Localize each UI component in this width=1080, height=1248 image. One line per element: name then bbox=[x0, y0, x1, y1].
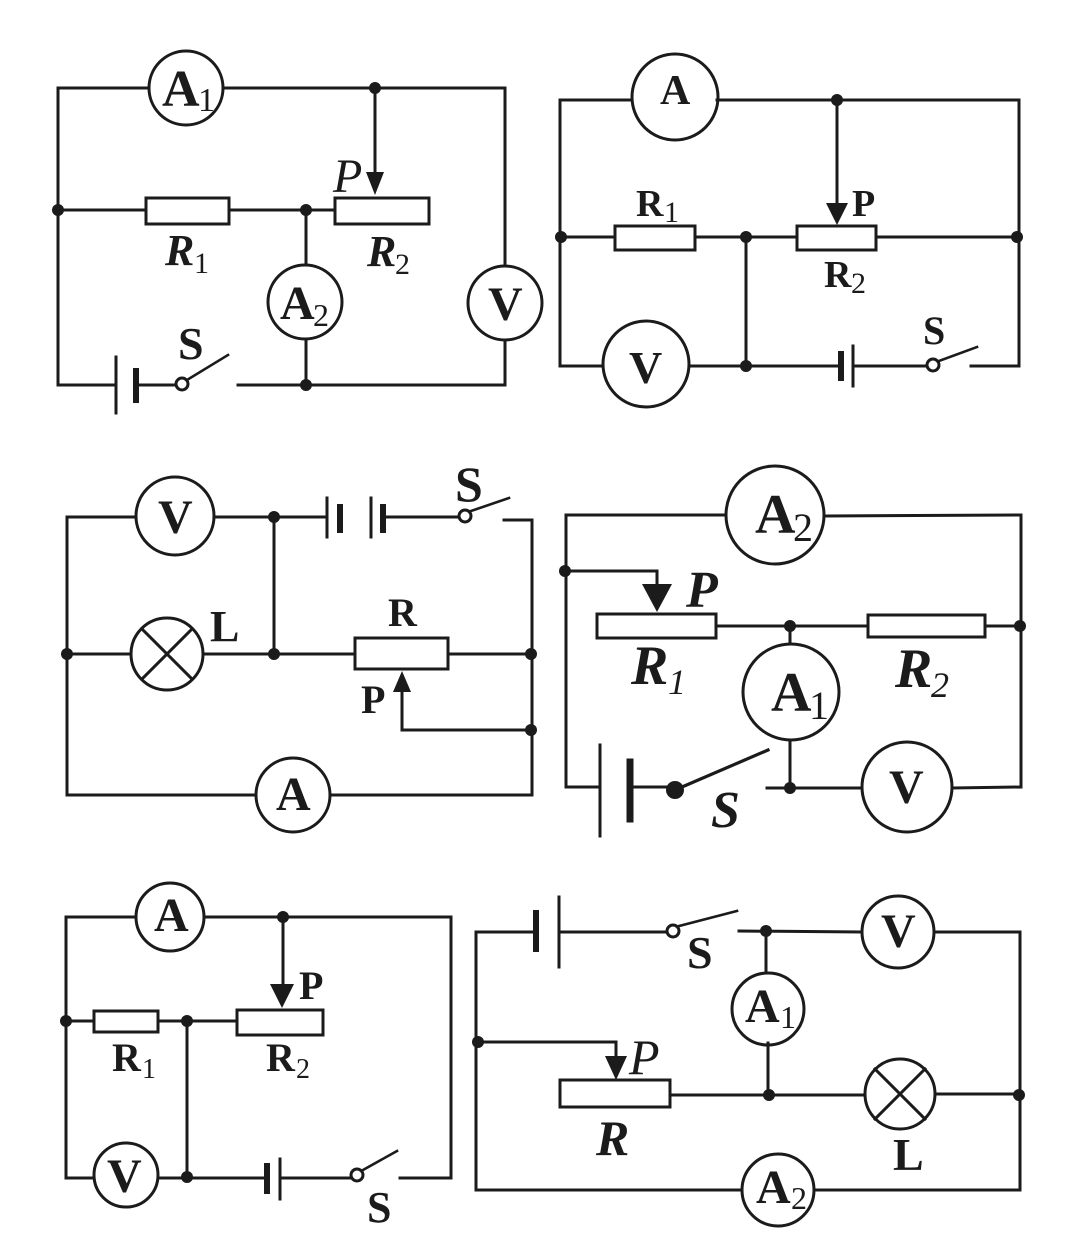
wire: c3 middle left bbox=[67, 653, 132, 656]
wire: c2 right edge bbox=[1018, 100, 1021, 366]
battery short plate (c6) bbox=[533, 913, 539, 949]
svg-text:A: A bbox=[660, 68, 691, 114]
switch S pivot (c5) bbox=[351, 1169, 363, 1181]
node: c3 left middle junction bbox=[61, 648, 73, 660]
svg-text:R: R bbox=[636, 183, 664, 225]
wire: c2 left edge bbox=[559, 100, 562, 366]
switch S blade (c6) bbox=[679, 911, 737, 926]
wire: c5 middle center bbox=[158, 1020, 237, 1023]
svg-text:A: A bbox=[162, 61, 200, 118]
battery cell1 short plate (c3) bbox=[337, 507, 343, 530]
switch pivot dot (c4) bbox=[666, 781, 684, 799]
node: c5 middle junction bbox=[181, 1015, 193, 1027]
wire: c1 bottom right bbox=[238, 384, 505, 387]
wire: c4 bottom center bbox=[767, 787, 862, 790]
rheostat R2 (c5) bbox=[237, 1010, 323, 1035]
wire: c6 wiper horizontal bbox=[476, 1042, 616, 1058]
wire: c6 bottom left bbox=[476, 1189, 741, 1192]
wire: c6 middle bbox=[670, 1094, 865, 1097]
svg-text:2: 2 bbox=[395, 248, 410, 281]
wire: c3 left edge bbox=[66, 517, 69, 795]
resistor R2 (c4) bbox=[868, 615, 985, 637]
node: c2 left middle junction bbox=[555, 231, 567, 243]
switch S pivot (c1) bbox=[176, 378, 188, 390]
wire: c4 middle right bbox=[985, 625, 1021, 628]
svg-text:P: P bbox=[299, 963, 323, 1008]
battery cell2 short plate (c3) bbox=[380, 507, 386, 530]
battery cell1 long plate (c3) bbox=[326, 498, 329, 537]
wire: c1 top right segment bbox=[223, 87, 505, 90]
wire: c4 wiper horizontal bbox=[566, 571, 657, 586]
wire: battery to switch (c2) bbox=[853, 365, 927, 368]
wire: c3 middle center bbox=[203, 653, 355, 656]
ammeter A1 (c6) bbox=[732, 973, 804, 1045]
switch S pivot (c3) bbox=[459, 510, 471, 522]
voltmeter V (c4) bbox=[862, 742, 952, 832]
rheostat R2 (c1) bbox=[335, 198, 429, 224]
node: c3 mid junction bbox=[268, 648, 280, 660]
svg-text:P: P bbox=[685, 562, 719, 619]
svg-text:A: A bbox=[276, 768, 311, 821]
svg-text:A: A bbox=[745, 980, 780, 1033]
voltmeter V (c3) bbox=[136, 477, 214, 555]
wire: c1 left edge bbox=[57, 88, 60, 385]
wire: c5 center drop bbox=[186, 1021, 189, 1178]
wire: c5 wiper drop bbox=[282, 917, 285, 986]
svg-text:P: P bbox=[361, 677, 385, 722]
label R1 (c1) bbox=[164, 226, 209, 280]
wire: c6 top left segment bbox=[476, 931, 536, 934]
node: c4 middle junction bbox=[784, 620, 796, 632]
ammeter A2 bbox=[268, 265, 342, 339]
svg-text:S: S bbox=[923, 308, 945, 353]
wire: c6 bottom right bbox=[814, 1189, 1020, 1192]
battery long plate (c1) bbox=[115, 357, 118, 413]
node: c6 top junction bbox=[760, 925, 772, 937]
wire: c2 middle right bbox=[876, 236, 1019, 239]
voltmeter V (c1) bbox=[468, 266, 542, 340]
wire: c3 V-branch drop bbox=[273, 517, 276, 654]
ammeter A1 (c4) bbox=[743, 644, 839, 740]
wire: c1 right edge lower bbox=[504, 340, 507, 385]
svg-text:P: P bbox=[628, 1029, 660, 1085]
wire: c6 top center bbox=[739, 931, 862, 932]
svg-text:1: 1 bbox=[198, 82, 215, 119]
wire: battery to switch bbox=[136, 384, 176, 387]
wire: c2 center drop bbox=[745, 237, 748, 366]
svg-text:A: A bbox=[771, 662, 812, 724]
rheostat R (c3) bbox=[355, 638, 448, 669]
node: c4 bottom junction bbox=[784, 782, 796, 794]
battery short plate (c4) bbox=[627, 762, 634, 819]
node: c2 right middle junction bbox=[1011, 231, 1023, 243]
wire: c6 battery to switch bbox=[559, 931, 667, 934]
node: c2 top junction bbox=[831, 94, 843, 106]
switch S blade (c5) bbox=[363, 1151, 397, 1170]
label R2 (c4) bbox=[894, 638, 949, 705]
svg-text:V: V bbox=[488, 278, 523, 331]
svg-text:A: A bbox=[756, 1161, 791, 1214]
wire: c6 A1 upper bbox=[765, 931, 768, 973]
label R1 (c4) bbox=[630, 635, 686, 702]
wire: c1 top left segment bbox=[58, 87, 149, 90]
wire: c6 right edge bbox=[1019, 932, 1022, 1190]
arrow onto R2 (wiper P, c2) bbox=[826, 203, 848, 225]
switch S blade (c4) bbox=[675, 750, 768, 790]
wire: c4 right edge bbox=[1020, 515, 1023, 787]
switch S pivot (c6) bbox=[667, 925, 679, 937]
resistor R1 (c2) bbox=[615, 226, 695, 250]
wire: c4 A1 lower bbox=[789, 740, 792, 788]
svg-text:P: P bbox=[852, 183, 875, 225]
node: c6 middle junction bbox=[763, 1089, 775, 1101]
wire: c3 bottom left bbox=[67, 794, 256, 797]
label R2 (c1) bbox=[366, 227, 410, 281]
wire: c5 battery to switch bbox=[280, 1177, 351, 1180]
battery short plate (c2) bbox=[838, 354, 844, 378]
wire: A2 branch upper bbox=[305, 210, 308, 266]
switch S blade (c2) bbox=[939, 347, 977, 361]
wire: c2 middle center bbox=[695, 236, 797, 239]
svg-text:V: V bbox=[158, 491, 193, 544]
wire: c6 middle right bbox=[935, 1093, 1020, 1096]
lamp L (c3) bbox=[131, 618, 203, 690]
wire: A2 branch lower bbox=[305, 341, 308, 385]
node: c3 right lower junction bbox=[525, 724, 537, 736]
svg-text:2: 2 bbox=[931, 665, 949, 705]
wire: c4 left edge bbox=[565, 515, 568, 787]
wire: c1 middle left bbox=[58, 209, 146, 212]
wire: c2 bottom left bbox=[560, 365, 602, 368]
svg-text:S: S bbox=[687, 927, 713, 978]
wire: c6 top right segment bbox=[934, 931, 1020, 934]
node: c3 top junction bbox=[268, 511, 280, 523]
wire: c6 A1 lower bbox=[767, 1043, 770, 1095]
label R2 (c5) bbox=[266, 1035, 310, 1085]
wire: c3 bottom right bbox=[330, 794, 532, 797]
wire: c4 bottom left bbox=[566, 786, 600, 789]
node: c5 top junction bbox=[277, 911, 289, 923]
node: c3 right middle junction bbox=[525, 648, 537, 660]
arrow up onto R (wiper P, c3) bbox=[393, 671, 411, 692]
wire: c3 top right corner bbox=[504, 520, 532, 795]
wire: c5 top left segment bbox=[66, 916, 136, 919]
switch S blade (c3) bbox=[471, 498, 509, 511]
arrow onto R1 (wiper P, c4) bbox=[642, 584, 672, 612]
node: c5 left middle junction bbox=[60, 1015, 72, 1027]
node: c2 middle junction bbox=[740, 231, 752, 243]
ammeter A1 bbox=[149, 51, 223, 125]
svg-text:A: A bbox=[755, 484, 796, 546]
voltmeter V (c2) bbox=[603, 321, 689, 407]
svg-text:1: 1 bbox=[809, 683, 829, 728]
svg-text:2: 2 bbox=[851, 267, 866, 300]
resistor R1 (c1) bbox=[146, 198, 229, 224]
node: c6 left junction bbox=[472, 1036, 484, 1048]
wire: c1 wiper drop bbox=[374, 88, 377, 178]
svg-text:R: R bbox=[630, 635, 668, 697]
wire: c1 middle center bbox=[229, 209, 335, 212]
wire: c5 bottom center bbox=[158, 1177, 267, 1180]
node: c2 bottom junction bbox=[740, 360, 752, 372]
wire: c5 left edge bbox=[65, 917, 68, 1178]
wire: c5 middle left bbox=[66, 1020, 94, 1023]
lamp L (c6) bbox=[865, 1059, 935, 1129]
svg-text:S: S bbox=[367, 1183, 391, 1232]
wire: c5 top right segment bbox=[204, 916, 451, 919]
wire: c4 A1 upper bbox=[789, 626, 792, 645]
wire: c2 top right segment bbox=[717, 99, 1019, 102]
svg-text:R: R bbox=[894, 638, 932, 700]
svg-text:2: 2 bbox=[313, 297, 329, 333]
node: c4 left junction bbox=[559, 565, 571, 577]
svg-text:S: S bbox=[178, 318, 204, 369]
svg-text:R: R bbox=[366, 227, 396, 276]
wire: c1 bottom left bbox=[58, 384, 116, 387]
wire: c4 bottom right bbox=[952, 787, 1021, 788]
wire: c4 top right segment bbox=[825, 515, 1021, 516]
svg-text:P: P bbox=[332, 150, 362, 203]
rheostat R2 (c2) bbox=[797, 226, 876, 250]
battery short plate (c1) bbox=[133, 371, 139, 400]
battery long plate (c4) bbox=[599, 745, 602, 836]
battery cell2 long plate (c3) bbox=[370, 498, 373, 537]
svg-text:L: L bbox=[893, 1129, 924, 1180]
battery long plate (c5) bbox=[279, 1159, 282, 1199]
node: c6 right junction bbox=[1013, 1089, 1025, 1101]
wire: c3 top to battery bbox=[214, 516, 327, 519]
svg-text:2: 2 bbox=[296, 1054, 310, 1085]
wire: c2 wiper drop bbox=[836, 100, 839, 205]
svg-text:A: A bbox=[154, 889, 189, 942]
wire: c3 battery to switch bbox=[383, 516, 459, 519]
node: c1 top junction bbox=[369, 82, 381, 94]
svg-text:1: 1 bbox=[142, 1054, 156, 1085]
ammeter A (c2) bbox=[632, 54, 718, 140]
svg-text:1: 1 bbox=[194, 247, 209, 280]
label R1 (c2) bbox=[636, 183, 679, 229]
wire: c6 left edge bbox=[475, 932, 478, 1190]
battery long plate (c2) bbox=[852, 346, 855, 386]
voltmeter V (c6) bbox=[862, 896, 934, 968]
battery long plate (c6) bbox=[558, 897, 561, 967]
svg-text:R: R bbox=[595, 1110, 629, 1166]
wire: c2 top left segment bbox=[560, 99, 633, 102]
svg-text:2: 2 bbox=[791, 1180, 807, 1216]
svg-text:V: V bbox=[629, 342, 662, 393]
ammeter A2 (c4) bbox=[726, 466, 824, 564]
arrow onto R2 (wiper P, c5) bbox=[270, 984, 294, 1008]
rheostat R1 (c4) bbox=[597, 614, 716, 638]
resistor R1 (c5) bbox=[94, 1011, 158, 1032]
voltmeter V (c5) bbox=[94, 1143, 158, 1207]
svg-text:S: S bbox=[455, 456, 483, 512]
node: c1 left junction bbox=[52, 204, 64, 216]
label R1 (c5) bbox=[112, 1035, 156, 1085]
wire: c5 bottom right bbox=[400, 1177, 451, 1180]
switch S blade (c1) bbox=[187, 355, 228, 380]
svg-text:R: R bbox=[112, 1035, 142, 1080]
svg-text:1: 1 bbox=[780, 999, 796, 1035]
wire: c3 middle right bbox=[448, 653, 532, 656]
node: c1 bottom junction bbox=[300, 379, 312, 391]
svg-text:V: V bbox=[107, 1150, 142, 1203]
battery short plate (c5) bbox=[264, 1166, 270, 1191]
switch S pivot (c2) bbox=[927, 359, 939, 371]
svg-text:V: V bbox=[881, 905, 916, 958]
ammeter A (c5) bbox=[136, 883, 204, 951]
arrow onto R (wiper P, c6) bbox=[605, 1056, 627, 1080]
svg-text:1: 1 bbox=[664, 196, 679, 229]
node: c1 middle junction bbox=[300, 204, 312, 216]
wire: c4 battery to switch bbox=[630, 786, 668, 789]
svg-text:R: R bbox=[266, 1035, 296, 1080]
node: c5 bottom junction bbox=[181, 1171, 193, 1183]
label R2 (c2) bbox=[824, 254, 866, 300]
svg-text:1: 1 bbox=[668, 662, 686, 702]
svg-text:R: R bbox=[388, 590, 418, 635]
wire: c3 top left segment bbox=[67, 516, 136, 519]
rheostat R (c6) bbox=[560, 1080, 670, 1107]
svg-text:L: L bbox=[210, 602, 239, 651]
wire: c2 bottom center bbox=[690, 365, 841, 368]
wire: c4 top left segment bbox=[566, 514, 727, 517]
ammeter A (c3) bbox=[256, 758, 330, 832]
svg-text:S: S bbox=[711, 782, 740, 839]
wire: c2 middle left bbox=[560, 236, 615, 239]
wire: c4 middle center bbox=[716, 625, 868, 628]
svg-text:R: R bbox=[824, 254, 852, 296]
svg-text:R: R bbox=[164, 226, 194, 275]
node: c4 right junction bbox=[1014, 620, 1026, 632]
svg-text:V: V bbox=[889, 761, 924, 814]
svg-text:2: 2 bbox=[793, 505, 813, 550]
ammeter A2 (c6) bbox=[742, 1154, 814, 1226]
wire: c2 bottom right bbox=[971, 365, 1019, 368]
wire: c5 bottom left bbox=[66, 1177, 95, 1180]
arrow onto R2 (wiper P) bbox=[366, 172, 384, 195]
wire: c5 right edge bbox=[450, 917, 453, 1178]
wire: c1 right edge upper bbox=[504, 88, 507, 266]
wire: c3 wiper shaft bbox=[402, 690, 532, 730]
svg-text:A: A bbox=[280, 277, 315, 330]
